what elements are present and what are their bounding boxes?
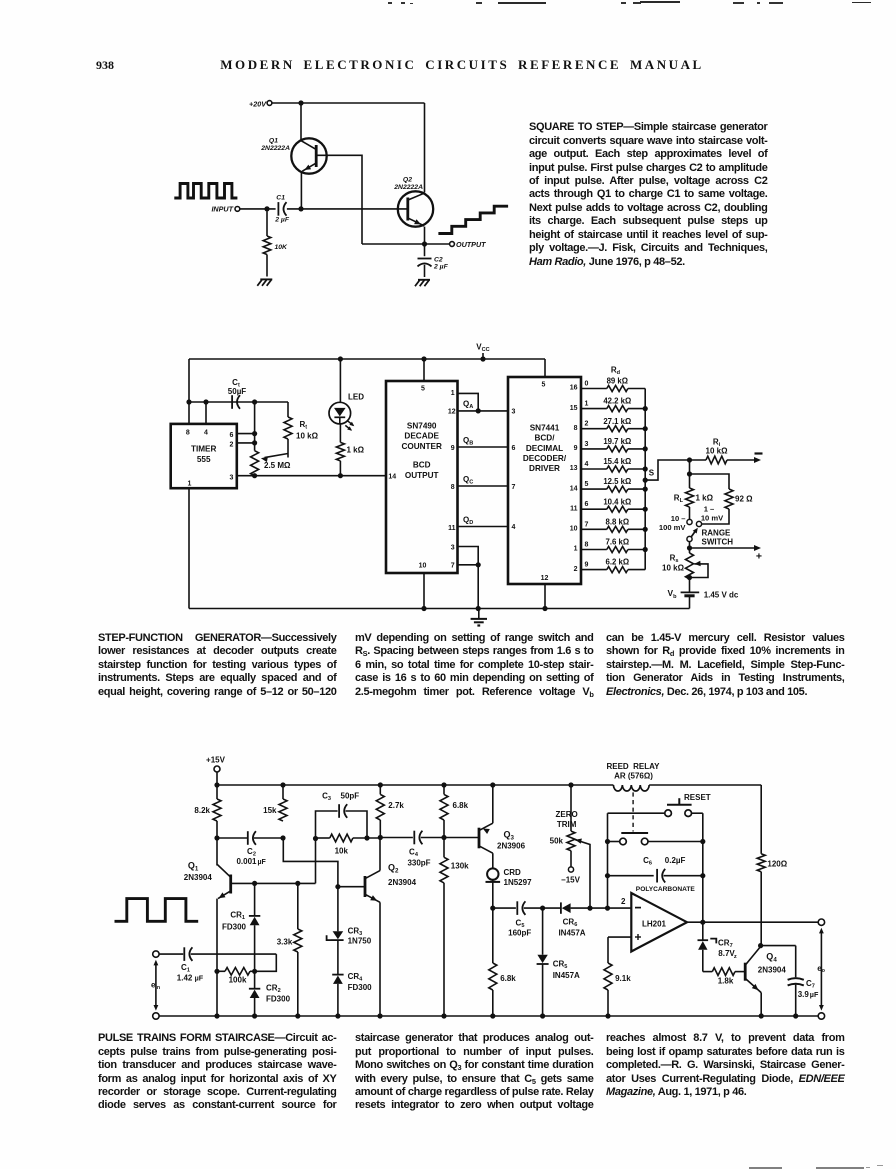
wire 7441 pin12 to bottom rail <box>542 584 547 611</box>
svg-text:CR4: CR4 <box>348 972 364 983</box>
wire Vcc rail to 7441 pin5 <box>544 359 546 377</box>
svg-text:RESET: RESET <box>684 793 711 802</box>
input square wave symbol <box>174 184 237 199</box>
relay coil REED RELAY AR 576ohm <box>606 762 660 832</box>
svg-text:FD300: FD300 <box>348 983 373 992</box>
resistor Rd3 19.7 kohm pin 9 <box>574 437 646 452</box>
svg-text:DECADE: DECADE <box>404 432 439 441</box>
svg-text:POLYCARBONATE: POLYCARBONATE <box>636 886 696 893</box>
svg-text:92 Ω: 92 Ω <box>735 495 753 504</box>
svg-text:FD300: FD300 <box>266 994 291 1003</box>
resistor Ri 10k <box>687 437 728 464</box>
resistor Rt 10k <box>284 402 319 458</box>
svg-text:DECODER/: DECODER/ <box>523 454 567 463</box>
svg-text:Q2: Q2 <box>388 863 399 875</box>
svg-text:z: z <box>734 954 737 960</box>
svg-text:S: S <box>649 469 655 478</box>
caption STEP-FUNCTION GENERATOR column 3 <box>606 632 845 699</box>
svg-text:100k: 100k <box>229 975 247 984</box>
terminal +15V <box>206 755 226 772</box>
svg-text:CR5: CR5 <box>553 960 568 971</box>
svg-text:8: 8 <box>574 425 578 432</box>
wire 10K to ground <box>266 255 268 277</box>
svg-text:50µF: 50µF <box>228 387 247 396</box>
svg-text:6: 6 <box>512 445 516 452</box>
resistor 1k LED <box>336 424 364 476</box>
wire Q1 base node <box>232 836 319 886</box>
wire C1 to Q2 base <box>287 206 408 211</box>
transistor Q4 2N3904 clamp <box>745 947 786 1017</box>
svg-text:2N3904: 2N3904 <box>184 873 213 882</box>
label Rd <box>611 366 621 377</box>
potentiometer Rs 10k <box>662 553 708 580</box>
running head title <box>14 57 896 73</box>
svg-text:IN457A: IN457A <box>553 971 580 980</box>
svg-text:+: + <box>756 551 762 563</box>
transistor Q2 <box>393 177 433 244</box>
svg-text:11: 11 <box>448 525 456 532</box>
resistor 9.1k <box>604 937 631 1016</box>
wire C1 to base node jog <box>191 954 276 971</box>
resistor Rd0 89 kohm pin 16 <box>570 377 645 392</box>
svg-text:3.3k: 3.3k <box>277 938 293 947</box>
resistor 6.8k timing <box>489 908 517 1016</box>
svg-text:−15V: −15V <box>561 875 581 884</box>
node QA <box>458 393 509 413</box>
wire timer pin3 output <box>237 473 386 478</box>
IC U2 SN7490 decade counter <box>386 381 458 573</box>
svg-text:QB: QB <box>463 436 473 447</box>
svg-text:C7: C7 <box>806 979 815 990</box>
svg-text:555: 555 <box>197 455 211 464</box>
terminal INPUT <box>211 205 239 214</box>
svg-text:10 kΩ: 10 kΩ <box>296 432 319 441</box>
switch RESET pushbutton <box>665 793 711 816</box>
svg-text:5: 5 <box>421 386 425 393</box>
svg-text:10 kΩ: 10 kΩ <box>706 447 729 456</box>
wire Q2 emitter <box>379 902 381 1016</box>
svg-text:2N3906: 2N3906 <box>497 842 526 851</box>
caption PULSE TRAINS column 1 <box>98 1032 337 1113</box>
svg-text:10k: 10k <box>335 847 349 856</box>
svg-text:C3: C3 <box>322 792 331 803</box>
capacitor C7 3.9uF <box>788 978 819 1016</box>
switch relay contact <box>605 833 706 845</box>
svg-text:1 kΩ: 1 kΩ <box>347 446 365 455</box>
ground middle circuit <box>471 610 487 626</box>
svg-text:1 –: 1 – <box>704 504 715 513</box>
switch range selector pole <box>687 528 733 547</box>
svg-text:15k: 15k <box>263 806 277 815</box>
svg-text:7: 7 <box>585 521 589 528</box>
resistor Rd2 27.1 kohm pin 8 <box>574 417 646 432</box>
wire S to RL 92ohm branches <box>687 460 729 489</box>
diode CR3 1N750 zener <box>327 887 372 975</box>
svg-text:5: 5 <box>585 481 589 488</box>
wire 7490 pins 3 7 to ground rail <box>458 547 481 612</box>
svg-text:2: 2 <box>230 441 234 448</box>
svg-text:2.7k: 2.7k <box>388 801 404 810</box>
svg-text:1: 1 <box>574 546 578 553</box>
svg-text:8.7V: 8.7V <box>718 949 735 958</box>
svg-text:4: 4 <box>585 461 589 468</box>
wire reset branch <box>608 813 703 841</box>
capacitor C2 mono <box>219 831 281 866</box>
svg-text:Rt: Rt <box>300 420 308 431</box>
resistor 10K input <box>263 212 288 255</box>
terminal -15V <box>561 851 581 885</box>
wire C2 to ground <box>424 265 426 277</box>
svg-text:LED: LED <box>348 393 364 402</box>
potentiometer 2.5 Mohm timer <box>251 451 291 479</box>
svg-text:6.8k: 6.8k <box>500 974 516 983</box>
svg-text:12: 12 <box>448 409 456 416</box>
svg-text:SWITCH: SWITCH <box>702 538 734 547</box>
svg-text:TIMER: TIMER <box>191 445 217 454</box>
svg-text:0.001: 0.001 <box>236 857 257 866</box>
diode CR7 8.7V zener <box>698 922 737 971</box>
svg-text:15: 15 <box>570 405 578 412</box>
capacitor Ct <box>228 378 247 409</box>
svg-text:C1: C1 <box>276 194 285 201</box>
resistor 15k <box>263 785 287 821</box>
svg-text:+20V: +20V <box>249 99 267 108</box>
terminal e_o output <box>817 919 825 1019</box>
svg-text:0: 0 <box>585 381 589 388</box>
svg-text:8: 8 <box>585 542 589 549</box>
svg-text:10: 10 <box>419 563 427 570</box>
svg-text:REED RELAY: REED RELAY <box>606 762 660 771</box>
svg-text:COUNTER: COUNTER <box>401 442 442 451</box>
svg-text:9: 9 <box>451 445 455 452</box>
svg-text:1: 1 <box>585 401 589 408</box>
svg-text:+15V: +15V <box>206 755 226 764</box>
capacitor C6 0.2uF polycarbonate <box>605 856 706 893</box>
svg-text:CRD: CRD <box>504 868 522 877</box>
svg-text:27.1 kΩ: 27.1 kΩ <box>603 417 631 426</box>
svg-text:OUTPUT: OUTPUT <box>405 471 439 480</box>
svg-text:10K: 10K <box>275 244 289 251</box>
svg-text:BCD: BCD <box>413 461 431 470</box>
svg-text:OUTPUT: OUTPUT <box>456 240 486 249</box>
svg-text:89 kΩ: 89 kΩ <box>607 377 628 386</box>
resistor 3.3k <box>277 883 302 1016</box>
svg-text:µF: µF <box>810 990 819 999</box>
wire Vcc to 7490 pin5 <box>423 359 425 381</box>
svg-text:Q3: Q3 <box>504 829 515 841</box>
resistor Rd5 12.5 kohm pin 14 <box>570 477 645 492</box>
svg-text:9: 9 <box>585 562 589 569</box>
terminal +20V <box>249 99 272 108</box>
transistor Q1 2N3904 <box>184 860 231 1016</box>
wire rail to timer <box>188 359 190 402</box>
wire battery to bottom rail <box>689 596 691 609</box>
svg-text:CR1: CR1 <box>230 911 245 922</box>
svg-text:14: 14 <box>388 473 396 480</box>
resistor 1.8k <box>703 968 744 986</box>
wire timer pins 8 4 top <box>186 399 288 424</box>
svg-text:Q4: Q4 <box>766 951 777 963</box>
svg-text:19.7 kΩ: 19.7 kΩ <box>603 437 631 446</box>
wire ground rail <box>189 608 690 610</box>
capacitor C1 input <box>159 947 204 982</box>
wire 7490 pin10 to bottom rail <box>421 573 426 611</box>
wire bottom ground rail <box>159 1013 818 1018</box>
caption STEP-FUNCTION GENERATOR column 1 <box>98 632 337 699</box>
svg-text:120Ω: 120Ω <box>767 859 787 868</box>
svg-text:QC: QC <box>463 475 473 486</box>
svg-text:7.6 kΩ: 7.6 kΩ <box>606 538 630 547</box>
svg-text:15.4 kΩ: 15.4 kΩ <box>603 457 631 466</box>
diode CRD 1N5297 current regulator <box>486 853 533 908</box>
capacitor C5 160pF <box>508 901 531 937</box>
op-amp U4 LH201 <box>621 893 687 952</box>
wire input node <box>240 206 276 211</box>
svg-text:ZERO: ZERO <box>555 810 577 819</box>
node QD <box>458 515 509 526</box>
svg-text:3: 3 <box>451 544 455 551</box>
svg-text:Q1: Q1 <box>188 860 199 872</box>
svg-text:3: 3 <box>585 441 589 448</box>
svg-text:C4: C4 <box>409 848 419 859</box>
resistor RL 1k <box>674 474 714 507</box>
svg-text:3: 3 <box>512 409 516 416</box>
ground input <box>257 279 272 285</box>
svg-text:Rd: Rd <box>611 366 621 377</box>
svg-text:7: 7 <box>512 484 516 491</box>
svg-text:1.8k: 1.8k <box>718 976 734 985</box>
input square wave symbol mono <box>115 899 199 922</box>
wire +15V supply rail <box>214 772 761 788</box>
svg-text:QD: QD <box>463 515 473 526</box>
resistor 100k <box>214 968 257 985</box>
transistor Q2 2N3904 mono <box>339 863 417 903</box>
svg-text:3.9: 3.9 <box>798 990 810 999</box>
svg-text:11: 11 <box>570 505 578 512</box>
capacitor C3 50pF <box>316 792 368 839</box>
svg-text:6.2 kΩ: 6.2 kΩ <box>606 558 630 567</box>
staircase output waveform symbol <box>438 206 508 233</box>
svg-text:C6: C6 <box>643 856 652 867</box>
svg-text:160pF: 160pF <box>508 928 531 937</box>
svg-text:10 mV: 10 mV <box>701 513 724 522</box>
resistor 10k feedback <box>316 834 379 855</box>
svg-text:50k: 50k <box>550 836 564 845</box>
wire opamp feedback verticals <box>608 842 703 922</box>
resistor Rd4 15.4 kohm pin 13 <box>570 457 645 472</box>
svg-text:SN7441: SN7441 <box>530 423 560 432</box>
svg-text:12.5 kΩ: 12.5 kΩ <box>603 477 631 486</box>
svg-text:2: 2 <box>621 897 626 906</box>
wire Q1 base to output node <box>316 155 362 244</box>
svg-text:1: 1 <box>451 390 455 397</box>
IC U3 SN7441 BCD decoder driver <box>508 377 581 584</box>
svg-text:13: 13 <box>570 465 578 472</box>
wire Rd output bus <box>643 389 648 570</box>
terminal plus output <box>687 542 762 563</box>
svg-text:10.4 kΩ: 10.4 kΩ <box>603 497 631 506</box>
wire C5 to CR6 <box>524 906 561 911</box>
wire Q1 collector node <box>214 821 219 866</box>
resistor Rd8 7.6 kohm pin 1 <box>574 538 646 553</box>
svg-text:4: 4 <box>512 524 516 531</box>
svg-text:9.1k: 9.1k <box>615 974 631 983</box>
svg-text:1: 1 <box>187 481 191 488</box>
svg-text:C1: C1 <box>181 963 190 974</box>
svg-text:2 µF: 2 µF <box>274 217 290 224</box>
svg-text:6.8k: 6.8k <box>453 801 469 810</box>
svg-text:5: 5 <box>542 382 546 389</box>
svg-text:DECIMAL: DECIMAL <box>526 444 563 453</box>
resistor Rd1 42.2 kohm pin 15 <box>570 397 645 412</box>
resistor 2.7k <box>376 785 404 840</box>
wire timer pin1 to bottom rail <box>188 488 190 608</box>
svg-text:10 kΩ: 10 kΩ <box>662 563 685 572</box>
svg-text:8.8 kΩ: 8.8 kΩ <box>606 517 630 526</box>
svg-text:2: 2 <box>585 421 589 428</box>
svg-text:CR7: CR7 <box>718 939 733 950</box>
transistor Q1 <box>260 103 326 209</box>
caption SQUARE TO STEP <box>529 121 768 269</box>
caption PULSE TRAINS column 3 <box>606 1032 845 1099</box>
svg-text:3: 3 <box>230 475 234 482</box>
wire timer pins 6 2 <box>237 399 257 450</box>
terminal 1-10mV range contact <box>696 504 729 526</box>
svg-text:1N750: 1N750 <box>348 937 372 946</box>
svg-text:RANGE: RANGE <box>702 529 732 538</box>
resistor 120 ohm <box>757 785 788 946</box>
svg-text:8.2k: 8.2k <box>194 806 210 815</box>
ground output <box>415 280 430 286</box>
capacitor C2 output <box>418 244 449 270</box>
terminal OUTPUT <box>450 240 487 249</box>
svg-text:CR2: CR2 <box>266 983 281 994</box>
svg-text:8: 8 <box>451 484 455 491</box>
svg-text:100 mV: 100 mV <box>659 523 687 532</box>
svg-text:µF: µF <box>258 859 267 866</box>
IC U1 TIMER 555 <box>171 424 237 488</box>
node Vcc <box>476 343 489 360</box>
svg-text:RL: RL <box>674 494 684 505</box>
svg-text:SN7490: SN7490 <box>407 421 437 430</box>
resistor 130k <box>440 838 469 1017</box>
svg-text:50pF: 50pF <box>341 792 360 801</box>
capacitor C1 <box>274 194 290 223</box>
node QC <box>458 475 509 486</box>
svg-text:330pF: 330pF <box>407 858 430 867</box>
svg-text:42.2 kΩ: 42.2 kΩ <box>603 397 631 406</box>
svg-text:8: 8 <box>186 429 190 436</box>
LED indicator <box>329 359 364 431</box>
svg-text:Vb: Vb <box>667 588 677 600</box>
svg-text:12: 12 <box>541 575 549 582</box>
svg-text:10: 10 <box>570 526 578 533</box>
svg-text:eo: eo <box>817 964 825 974</box>
svg-text:Q1: Q1 <box>269 138 278 145</box>
resistor 6.8k collector <box>440 785 469 840</box>
svg-text:TRIM: TRIM <box>557 820 577 829</box>
wire +20V supply rail <box>272 100 424 105</box>
node S <box>645 460 689 480</box>
transistor Q3 2N3906 <box>446 785 526 853</box>
svg-text:2N2222A: 2N2222A <box>260 145 290 152</box>
svg-text:2.5 MΩ: 2.5 MΩ <box>264 461 291 470</box>
resistor Rd7 8.8 kohm pin 10 <box>570 517 645 532</box>
svg-text:4: 4 <box>204 429 208 436</box>
svg-text:10 –: 10 – <box>671 514 686 523</box>
svg-text:INPUT: INPUT <box>211 205 233 214</box>
wire output node <box>362 241 449 246</box>
resistor 92 ohm <box>725 489 753 509</box>
diode CR6 1N457A <box>558 902 588 937</box>
battery Vb 1.45V <box>667 578 738 600</box>
diode CR4 FD300 <box>332 972 372 1016</box>
svg-text:1 kΩ: 1 kΩ <box>696 494 714 503</box>
svg-text:DRIVER: DRIVER <box>529 464 560 473</box>
svg-text:6: 6 <box>230 432 234 439</box>
svg-text:7: 7 <box>451 563 455 570</box>
svg-text:2N3904: 2N3904 <box>388 878 417 887</box>
resistor Rd6 10.4 kohm pin 11 <box>570 497 645 512</box>
potentiometer zero trim 50k <box>550 785 590 908</box>
svg-text:VCC: VCC <box>476 343 489 354</box>
svg-text:14: 14 <box>570 485 578 492</box>
terminal minus output <box>727 454 763 464</box>
svg-text:2: 2 <box>574 566 578 573</box>
wire CR6 to opamp input <box>587 906 631 911</box>
caption PULSE TRAINS column 2 <box>355 1032 594 1113</box>
node QB <box>458 436 509 447</box>
capacitor C4 330pF <box>382 831 442 868</box>
diode CR1 FD300 <box>222 883 260 971</box>
wire C2 15k node jog to Q2 base <box>280 835 340 889</box>
wire Q2 collector <box>379 838 381 871</box>
svg-text:LH201: LH201 <box>642 920 667 929</box>
caption STEP-FUNCTION GENERATOR column 2 <box>355 632 594 699</box>
svg-text:6: 6 <box>585 501 589 508</box>
svg-text:C2: C2 <box>247 847 256 858</box>
svg-text:BCD/: BCD/ <box>534 434 555 443</box>
wire integrator summing node <box>490 906 516 911</box>
svg-text:0.2µF: 0.2µF <box>665 856 686 865</box>
svg-text:1.45 V dc: 1.45 V dc <box>704 590 739 599</box>
resistor Rd9 6.2 kohm pin 2 <box>574 558 646 573</box>
terminal 10-100mV range contact <box>659 507 692 532</box>
svg-text:1.42: 1.42 <box>177 973 193 982</box>
wire Q4 collector node <box>758 943 796 977</box>
svg-text:FD300: FD300 <box>222 923 247 932</box>
svg-text:2N2222A: 2N2222A <box>393 184 423 191</box>
svg-text:9: 9 <box>574 445 578 452</box>
svg-text:IN457A: IN457A <box>558 928 585 937</box>
svg-text:Q2: Q2 <box>403 177 412 184</box>
svg-text:CR6: CR6 <box>563 917 578 928</box>
terminal e_in input <box>151 951 160 1019</box>
svg-text:C5: C5 <box>516 918 525 929</box>
svg-text:QA: QA <box>463 399 473 410</box>
svg-text:16: 16 <box>570 385 578 392</box>
svg-text:AR (576Ω): AR (576Ω) <box>614 771 653 780</box>
page number 938 <box>96 58 114 73</box>
svg-text:130k: 130k <box>451 862 469 871</box>
wire opamp output <box>687 920 818 925</box>
resistor 8.2k <box>194 785 221 821</box>
wire supply to Q2 collector <box>424 103 426 192</box>
svg-text:2 µF: 2 µF <box>433 263 449 270</box>
svg-text:1N5297: 1N5297 <box>504 878 533 887</box>
diode CR5 1N457A <box>537 908 580 1016</box>
svg-text:µF: µF <box>195 973 204 982</box>
